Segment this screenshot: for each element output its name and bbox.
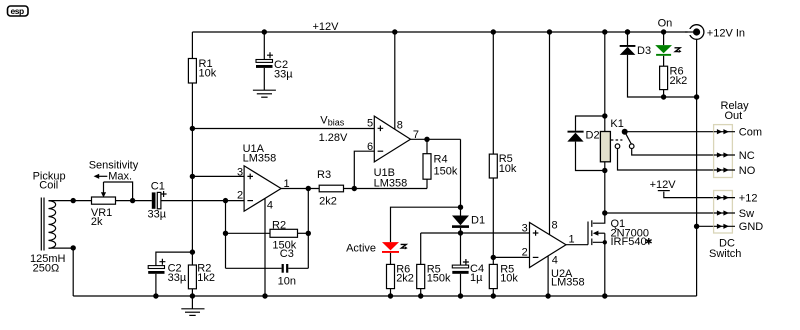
svg-text:Sw: Sw: [739, 208, 754, 220]
svg-text:+12V In: +12V In: [707, 28, 745, 40]
node D2 top: [602, 113, 607, 118]
svg-text:2: 2: [522, 247, 528, 259]
wire R5 10k divider vertical: [492, 32, 494, 296]
terminal NC: [714, 150, 755, 162]
wire U1A pin4 to ground: [264, 198, 266, 296]
svg-text:5: 5: [367, 118, 373, 130]
wire U1B output: [411, 138, 461, 140]
LED Active: [346, 242, 408, 264]
node ground-U1A-pin4: [262, 293, 267, 298]
node ground-U2A-pin4: [545, 293, 550, 298]
resistor R1: [188, 59, 196, 84]
node barrel-D3: [694, 94, 699, 99]
svg-text:4: 4: [552, 255, 558, 267]
node Q1 source-ground: [602, 293, 607, 298]
relay coil K1: [600, 118, 623, 162]
transistor Q1: [588, 213, 653, 296]
svg-text:bias: bias: [328, 118, 345, 128]
node coil top: [71, 198, 76, 203]
svg-text:3: 3: [522, 223, 528, 235]
node ground-R2: [190, 293, 195, 298]
svg-text:IRF540: IRF540: [611, 236, 647, 248]
svg-text:Coil: Coil: [39, 180, 58, 192]
ground (main, under R2 1k2): [181, 296, 204, 315]
resistor R6 2k2 (LED): [660, 66, 688, 98]
svg-text:250Ω: 250Ω: [33, 263, 60, 275]
svg-text:+12V: +12V: [313, 21, 340, 33]
resistor R2 1k2: [188, 265, 196, 289]
node R2 left: [223, 231, 228, 236]
wire U1B pin8 to rail: [394, 32, 396, 130]
wire GND: [697, 225, 714, 227]
wire U2A pin8 to rail: [549, 32, 551, 235]
svg-text:Switch: Switch: [709, 248, 741, 260]
terminal block relay out: [714, 125, 733, 178]
wire feedback right vertical: [307, 189, 309, 269]
wire C1 to U1A pin2: [161, 200, 244, 202]
terminal Sw: [714, 208, 755, 220]
svg-text:✱: ✱: [645, 237, 653, 247]
svg-text:2k2: 2k2: [319, 196, 337, 208]
resistor R2 150k feedback: [226, 220, 309, 252]
wire U2A output to gate: [566, 244, 588, 246]
svg-text:Active: Active: [346, 243, 376, 255]
svg-text:150k: 150k: [434, 166, 458, 178]
diode D3: [620, 29, 697, 97]
svg-text:LM358: LM358: [551, 277, 585, 289]
svg-text:10n: 10n: [278, 276, 296, 288]
wire to U1A pin3: [192, 175, 244, 177]
svg-text:2: 2: [237, 190, 243, 202]
svg-text:1µ: 1µ: [470, 272, 483, 284]
svg-text:Com: Com: [739, 127, 762, 139]
svg-text:2k2: 2k2: [396, 273, 414, 285]
svg-text:150k: 150k: [427, 273, 451, 285]
terminal GND: [714, 221, 764, 233]
wire VR1 to C1: [116, 200, 152, 202]
node U2A pin2 junction: [491, 255, 496, 260]
resistor R3: [317, 169, 427, 208]
wire U1B out down to D1: [460, 139, 462, 215]
svg-text:C3: C3: [280, 248, 294, 260]
capacitor C2 (bias bypass): [148, 252, 192, 296]
potentiometer VR1: [91, 182, 133, 228]
capacitor C3: [226, 248, 309, 288]
node U1B output: [424, 137, 429, 142]
terminal block dc switch: [714, 191, 733, 234]
node C2 tap: [190, 249, 195, 254]
resistor R5 10k lower: [489, 264, 518, 289]
svg-text:R2: R2: [272, 220, 286, 232]
svg-text:33µ: 33µ: [148, 209, 167, 221]
+12V supply tap symbol: [650, 179, 714, 198]
svg-text:+12V: +12V: [650, 179, 677, 191]
node ground-C4: [458, 293, 463, 298]
resistor R4: [423, 139, 458, 188]
node D1 top: [458, 205, 463, 210]
wire to U1B pin6: [354, 151, 374, 188]
node R3 right / pin6: [352, 186, 357, 191]
node U1A output: [306, 186, 311, 191]
svg-text:4: 4: [267, 200, 273, 212]
op-amp U1B: [367, 116, 419, 189]
relay contacts: [611, 129, 634, 149]
svg-text:33µ: 33µ: [168, 272, 187, 284]
node pin8 rail U2A: [547, 29, 552, 34]
svg-text:Max.: Max.: [108, 171, 132, 183]
wire relay branch vertical: [604, 32, 606, 213]
node wiper junction: [130, 198, 135, 203]
ESP logo: [8, 6, 29, 16]
svg-text:10k: 10k: [199, 68, 217, 80]
capacitor C1: [148, 181, 167, 221]
wire feedback left vertical: [225, 201, 227, 269]
node relay rail: [602, 29, 607, 34]
power connector +12V In: [685, 25, 745, 40]
svg-text:1: 1: [569, 234, 575, 246]
svg-text:+12: +12: [739, 193, 758, 205]
svg-text:esp: esp: [11, 6, 24, 16]
svg-text:2k: 2k: [91, 216, 103, 228]
node D2 bottom: [602, 168, 607, 173]
svg-text:R4: R4: [434, 154, 448, 166]
svg-text:C1: C1: [151, 181, 165, 193]
svg-text:D2: D2: [586, 130, 600, 142]
wire NC: [632, 149, 714, 156]
op-amp U2A: [522, 220, 585, 289]
wire U2A pin4 to ground: [547, 256, 549, 296]
wire U1A output: [281, 188, 319, 190]
terminal +12: [714, 193, 758, 205]
node U1A pin3 tap: [190, 174, 195, 179]
wire to active branch: [391, 207, 461, 242]
node D1 bottom: [458, 230, 463, 235]
svg-text:3: 3: [237, 167, 243, 179]
+12V rail: [192, 31, 689, 33]
svg-text:1.28V: 1.28V: [319, 132, 348, 144]
diode D1: [452, 215, 485, 234]
wire Com: [625, 131, 714, 133]
svg-text:Out: Out: [725, 110, 743, 122]
wire NO: [618, 149, 714, 171]
node R2 right: [306, 231, 311, 236]
pickup coil L1: [30, 171, 66, 275]
resistor R5 150k: [417, 233, 451, 296]
svg-text:33µ: 33µ: [274, 69, 293, 81]
node coil bottom: [71, 245, 76, 250]
ground (under C2 supply): [253, 90, 276, 97]
node ground-R5-150k: [418, 293, 423, 298]
svg-text:LM358: LM358: [374, 178, 408, 190]
wire coil top lead: [49, 200, 92, 202]
wire to U2A pin2: [493, 256, 529, 258]
svg-text:D3: D3: [637, 45, 651, 57]
resistor R6 2k2 (active): [387, 264, 414, 297]
svg-text:GND: GND: [739, 221, 764, 233]
diode D2: [567, 116, 605, 171]
node ground-C2: [153, 293, 158, 298]
svg-text:1k2: 1k2: [197, 272, 215, 284]
svg-text:On: On: [658, 18, 673, 30]
capacitor C4: [452, 233, 484, 296]
node R5 rail: [491, 29, 496, 34]
node ground-R5-10k: [491, 293, 496, 298]
node Q1 drain: [602, 210, 607, 215]
LED On (green): [655, 18, 681, 67]
terminal NO: [714, 165, 756, 177]
svg-text:8: 8: [397, 120, 403, 132]
svg-text:6: 6: [367, 141, 373, 153]
node pin2 junction: [223, 198, 228, 203]
node barrel-GND: [694, 224, 699, 229]
terminal Com: [714, 127, 762, 139]
svg-text:8: 8: [552, 220, 558, 232]
node rail-D3: [625, 29, 630, 34]
ground rail: [73, 295, 696, 297]
node pin8 rail: [392, 29, 397, 34]
label sensitivity: [89, 160, 139, 183]
node ground-R6: [388, 293, 393, 298]
svg-text:2k2: 2k2: [670, 75, 688, 87]
wire barrel ground vertical: [696, 39, 698, 296]
node rail-C2: [262, 29, 267, 34]
svg-text:D1: D1: [471, 215, 485, 227]
wire Vbias: [192, 128, 374, 130]
svg-text:R3: R3: [317, 169, 331, 181]
svg-text:LM358: LM358: [243, 153, 277, 165]
node R6 bottom: [661, 94, 666, 99]
svg-text:10k: 10k: [499, 163, 517, 175]
capacitor C2 (supply): [256, 32, 293, 90]
wire coil bottom lead: [49, 248, 74, 296]
wire R1 branch vertical: [191, 32, 193, 296]
svg-text:K1: K1: [610, 118, 623, 130]
node Vbias tap: [190, 126, 195, 131]
svg-text:NC: NC: [739, 150, 755, 162]
svg-text:10k: 10k: [500, 273, 518, 285]
resistor R5 10k upper: [489, 153, 517, 178]
wire D1 bottom to U2A pin3: [421, 232, 530, 234]
op-amp U1A: [237, 143, 290, 212]
svg-text:NO: NO: [739, 165, 756, 177]
wire Sw: [605, 212, 714, 214]
